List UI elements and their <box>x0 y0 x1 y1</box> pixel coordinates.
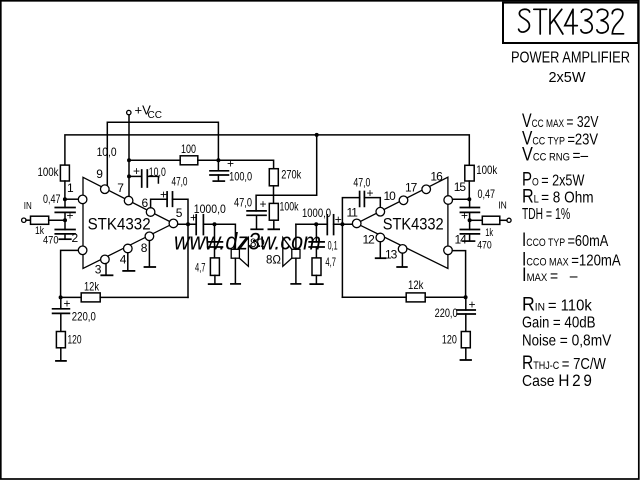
svg-text:4: 4 <box>120 253 127 267</box>
svg-text:220,0: 220,0 <box>72 310 96 324</box>
svg-text:4,7: 4,7 <box>195 261 206 275</box>
ground pin 3 <box>101 264 112 276</box>
spec RL <box>522 185 594 207</box>
svg-text:STK4332: STK4332 <box>383 215 444 233</box>
node rail-bias junction <box>315 133 319 137</box>
resistor 100k right <box>465 163 498 181</box>
pin 7 circle <box>124 196 133 205</box>
wire 100k to input node <box>64 181 66 199</box>
spec Noise <box>522 332 611 350</box>
svg-text:4,7: 4,7 <box>325 255 336 269</box>
ground 100k mid <box>268 220 279 229</box>
ground 47,0 mid <box>251 228 263 230</box>
svg-text:+: + <box>160 187 167 201</box>
wire pin 14 to feedback node <box>452 251 465 298</box>
resistor 100k left <box>38 165 70 181</box>
svg-text:15: 15 <box>454 180 467 194</box>
resistor 1k left <box>31 216 49 237</box>
svg-text:12k: 12k <box>408 278 424 292</box>
node rail-100,0 <box>216 158 220 162</box>
node rail-Vcc <box>127 158 131 162</box>
wire pin 2 to feedback node <box>61 250 79 297</box>
title glyph 3 <box>581 9 592 33</box>
svg-text:12: 12 <box>363 233 376 247</box>
node 1k junction right <box>468 218 472 222</box>
svg-text:7: 7 <box>117 181 124 195</box>
svg-text:TDH = 1%: TDH = 1% <box>522 205 570 223</box>
svg-text:RIN = 110k: RIN = 110k <box>522 293 592 315</box>
speaker left <box>231 238 248 284</box>
terminal IN left <box>22 200 32 222</box>
svg-text:12k: 12k <box>84 280 100 294</box>
title glyph T <box>534 9 547 34</box>
svg-text:Gain = 40dB: Gain = 40dB <box>522 314 596 331</box>
svg-text:IN: IN <box>24 200 32 212</box>
pin 9 circle <box>101 185 110 194</box>
svg-text:47,0: 47,0 <box>234 195 252 209</box>
resistor 100k mid <box>269 200 299 221</box>
svg-text:470: 470 <box>477 239 492 251</box>
capacitor 0,1 right <box>309 224 338 258</box>
title glyph S <box>519 9 530 32</box>
wire output to speaker corner <box>203 224 235 249</box>
wire 1k to node <box>49 219 65 221</box>
capacitor 0,47 right <box>460 187 495 223</box>
svg-text:STK4332: STK4332 <box>88 216 151 234</box>
op-amp U1 left STK4332 <box>83 177 173 268</box>
svg-text:270k: 270k <box>281 168 302 182</box>
spec Rin <box>522 293 592 315</box>
svg-text:8Ω: 8Ω <box>250 238 265 250</box>
wire Vcc rail y135 <box>65 135 469 165</box>
svg-text:17: 17 <box>405 181 418 195</box>
capacitor 10,0 <box>129 164 166 187</box>
svg-text:+: + <box>260 197 267 211</box>
svg-text:2: 2 <box>72 231 79 245</box>
svg-text:9: 9 <box>96 167 103 181</box>
title glyph 4 <box>565 9 578 34</box>
svg-text:6: 6 <box>142 196 149 210</box>
pin 1 circle <box>78 195 87 204</box>
wire feedback riser right <box>341 224 343 297</box>
wire 100-resistor rail <box>129 159 180 161</box>
pin 11 circle <box>352 219 361 228</box>
svg-text:0,47: 0,47 <box>478 187 496 201</box>
svg-text:+: + <box>227 157 234 171</box>
ground left bottom <box>56 348 66 361</box>
node 1k junction left <box>63 218 67 222</box>
svg-text:100k: 100k <box>476 163 498 177</box>
node zobel tap right <box>314 222 318 226</box>
node pin7 wire 10,0 branch <box>127 174 131 178</box>
ground pin 12 <box>376 242 386 258</box>
svg-text:5: 5 <box>176 206 183 220</box>
svg-text:+: + <box>133 164 140 178</box>
svg-text:Noise = 0,8mV: Noise = 0,8mV <box>522 332 611 350</box>
pin 3 circle <box>101 255 110 264</box>
pin 6 circle <box>146 208 155 217</box>
svg-text:220,0: 220,0 <box>435 306 458 320</box>
capacitor 0,1 left <box>208 224 223 258</box>
svg-text:100,0: 100,0 <box>229 170 252 184</box>
resistor 4,7 right <box>312 255 336 275</box>
terminal +Vcc <box>127 103 162 122</box>
capacitor 1000,0 left <box>190 202 226 235</box>
svg-text:POWER AMPLIFIER: POWER AMPLIFIER <box>511 50 630 67</box>
svg-text:0,47: 0,47 <box>43 192 61 206</box>
svg-text:+: + <box>335 212 342 226</box>
svg-text:10: 10 <box>384 189 397 203</box>
title glyph K <box>550 9 563 34</box>
pin 15 circle <box>444 196 453 205</box>
svg-text:13: 13 <box>385 247 398 261</box>
node output right (47,0/12k tap) <box>340 222 344 226</box>
terminal IN right <box>498 200 511 223</box>
node input right <box>467 197 471 201</box>
svg-text:100k: 100k <box>280 200 300 214</box>
node feedback right <box>464 295 468 299</box>
svg-text:1000,0: 1000,0 <box>302 206 331 220</box>
wire 270k stems <box>273 186 275 204</box>
spec Case <box>522 371 595 390</box>
svg-text:1000,0: 1000,0 <box>194 202 226 216</box>
pin 12 circle <box>376 233 385 242</box>
svg-text:100k: 100k <box>38 165 60 179</box>
spec Po <box>522 169 585 190</box>
title box <box>503 3 638 43</box>
svg-text:1: 1 <box>67 181 74 195</box>
node output left <box>186 222 190 226</box>
spec Icco MAX <box>522 248 621 270</box>
capacitor 0,47 left <box>43 192 75 223</box>
pin 2 circle <box>78 246 87 255</box>
svg-text:IN: IN <box>498 200 507 212</box>
resistor 12k right <box>342 278 465 302</box>
svg-text:+: + <box>469 298 476 312</box>
node input left <box>63 197 67 201</box>
svg-text:+: + <box>64 297 71 311</box>
spec TDH <box>522 205 570 223</box>
pin 10 circle <box>376 207 385 216</box>
wire feedback riser left <box>187 224 189 297</box>
svg-text:120: 120 <box>68 333 82 347</box>
pin 5 circle <box>169 219 178 228</box>
resistor 100 <box>180 142 198 165</box>
resistor 1k right <box>470 216 507 239</box>
capacitor 100,0 <box>210 157 252 184</box>
capacitor 470 left <box>43 220 75 246</box>
title glyph 3 <box>597 9 608 33</box>
svg-text:8Ω: 8Ω <box>266 255 281 267</box>
svg-text:Case H29: Case H29 <box>522 371 595 390</box>
node zobel tap left <box>213 222 217 226</box>
wire +Vcc vertical to pin 7 <box>128 115 130 197</box>
svg-text:11: 11 <box>347 205 359 219</box>
svg-text:+: + <box>461 209 468 223</box>
capacitor 220,0 right <box>435 297 476 331</box>
ground 4,7 left <box>209 275 222 284</box>
svg-text:47,0: 47,0 <box>353 175 370 189</box>
wire pin 15 to node <box>453 198 470 200</box>
wire pin9 top loop <box>107 122 218 185</box>
spec Imax <box>522 264 578 285</box>
svg-text:0,1: 0,1 <box>328 238 338 252</box>
svg-text:1k: 1k <box>485 227 493 239</box>
wire IN to 1k <box>26 219 31 221</box>
spec Gain <box>522 314 596 331</box>
spec Vcc TYP <box>522 127 598 149</box>
wire 100k right to input node <box>468 181 470 199</box>
capacitor 47,0 mid <box>234 195 267 228</box>
spec Vcc MAX <box>522 110 599 131</box>
ground right bottom <box>461 348 472 360</box>
ground pin 4 <box>123 253 134 271</box>
ground pin 8 <box>145 241 156 267</box>
pin 16 circle <box>422 185 431 194</box>
svg-text:2x5W: 2x5W <box>549 69 587 86</box>
svg-text:100: 100 <box>181 142 196 156</box>
resistor 4,7 left <box>195 258 219 276</box>
wire bias branch down-left <box>256 135 317 211</box>
capacitor 1000,0 right <box>296 206 353 235</box>
pin 14 circle <box>444 246 453 255</box>
pin 8 circle <box>145 232 154 241</box>
wire pin 5 output <box>178 223 197 225</box>
speaker right <box>283 224 300 283</box>
resistor 120 right <box>442 332 470 348</box>
svg-text:47,0: 47,0 <box>172 175 188 189</box>
svg-text:8: 8 <box>141 241 148 255</box>
wire node to pin 1 <box>65 198 78 200</box>
svg-text:16: 16 <box>430 169 443 183</box>
pin 17 circle <box>399 196 408 205</box>
pin 4 circle <box>124 244 133 253</box>
title glyph 2 <box>612 9 623 34</box>
svg-text:10,0: 10,0 <box>149 165 166 179</box>
spec Icco TYP <box>522 228 609 250</box>
pin 13 circle <box>398 245 407 254</box>
resistor 12k left <box>61 280 188 302</box>
spec Rthj-c <box>522 352 606 374</box>
capacitor 220,0 left <box>53 297 96 332</box>
capacitor 470 right <box>460 220 491 251</box>
resistor 120 left <box>56 332 81 348</box>
svg-text:470: 470 <box>43 235 59 247</box>
op-amp U2 right STK4332 <box>357 177 448 268</box>
ground speaker right <box>291 283 300 285</box>
capacitor 47,0 left <box>151 175 188 225</box>
svg-text:10,0: 10,0 <box>97 145 117 159</box>
ground 4,7 right <box>310 275 323 284</box>
svg-text:+: + <box>67 209 74 223</box>
capacitor 47,0 right <box>342 175 380 224</box>
svg-text:CC: CC <box>148 110 162 121</box>
resistor 270k <box>269 168 302 186</box>
ground pin 13 <box>397 253 407 267</box>
node feedback left <box>59 295 63 299</box>
svg-text:120: 120 <box>442 333 457 347</box>
spec Vcc RNG <box>522 143 589 164</box>
ground speaker left <box>231 283 240 285</box>
